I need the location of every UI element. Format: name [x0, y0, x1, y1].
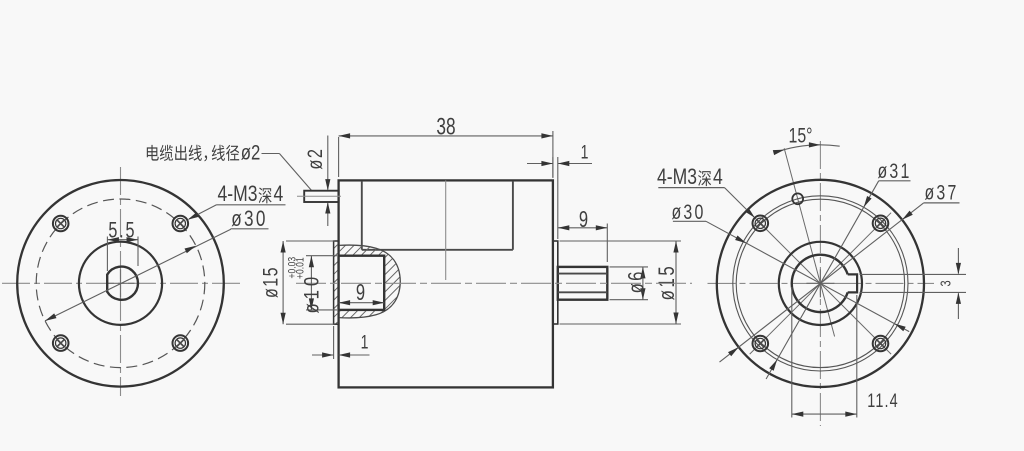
svg-text:15°: 15°: [788, 124, 812, 148]
tapped hole M3 left view #2: [173, 216, 189, 232]
svg-text:5.5: 5.5: [108, 218, 136, 243]
tapped hole M3 left view #4: [173, 335, 189, 351]
svg-text:ø31: ø31: [877, 160, 911, 184]
dimension 9 shaft length: [558, 207, 608, 262]
svg-text:1: 1: [581, 141, 589, 163]
rear bearing boss ø15 x 1: [553, 241, 558, 324]
svg-text:ø2: ø2: [241, 142, 261, 165]
tapped hole M3 right view #4: [873, 336, 889, 352]
dimension 11.4 bore to keyway: [792, 287, 899, 418]
dimension ø6 shaft: [610, 267, 650, 300]
svg-text:9: 9: [579, 207, 588, 232]
hub circle ø15 right view: [779, 242, 862, 325]
dimension ø30 bolt circle left view: [45, 207, 269, 321]
tapped hole M3 right view #2: [873, 216, 889, 232]
15 degree reference line to small hole: [784, 148, 834, 336]
bolt circle ø30 dashed left view: [36, 199, 205, 368]
circle ø31: [733, 196, 908, 371]
front sleeve ø15 x 1: [334, 241, 339, 324]
svg-text:9: 9: [356, 280, 365, 305]
motor body rectangle 38 long: [339, 180, 553, 387]
hub circle ø15 left view: [79, 242, 162, 325]
svg-text:4-M3: 4-M3: [657, 165, 697, 190]
shaft bore ø5.5 with flat, left view: [107, 267, 138, 300]
middle view: side section of motor body: [339, 180, 553, 387]
centerline vertical left view: [120, 167, 122, 396]
circle ø30 bolt circle: [736, 199, 904, 367]
dimension ø31: [766, 181, 879, 379]
svg-text:ø2: ø2: [304, 148, 328, 170]
svg-text:+0.01: +0.01: [295, 257, 307, 279]
output shaft ø6 with flats: [558, 267, 608, 300]
bore ø10 with keyway right view: [792, 255, 857, 312]
dimension 1 rear boss step: [527, 141, 592, 239]
dimension ø30 bolt circle right view: [706, 221, 909, 331]
svg-text:1: 1: [361, 331, 369, 353]
dimension 5.5 across flats of bore: [107, 218, 138, 271]
flange outer circle ø37 left view: [17, 180, 224, 387]
dimension 3 keyway width: [860, 248, 967, 319]
label 4-M3 depth 4 right view: [657, 165, 755, 218]
main axis centerline: [296, 282, 692, 284]
cable stub on top left of body: [297, 191, 341, 202]
center cross left view: [107, 282, 135, 284]
svg-text:38: 38: [436, 114, 455, 140]
small hole on ø31 at 15 degrees: [792, 193, 803, 204]
label cable outlet, wire dia 2: [147, 142, 312, 191]
svg-text:3: 3: [937, 280, 954, 286]
dimension ø2 cable: [304, 136, 330, 227]
dimension 9 bore depth: [339, 280, 385, 305]
svg-text:ø15: ø15: [655, 264, 680, 301]
svg-text:ø37: ø37: [924, 181, 958, 205]
dimension ø10 bore with tolerance: [287, 256, 337, 314]
dimension 38 overall length: [339, 114, 553, 177]
svg-text:ø30: ø30: [671, 201, 705, 225]
svg-text:4: 4: [713, 165, 723, 190]
centerline horizontal right view: [708, 282, 935, 284]
svg-text:11.4: 11.4: [867, 389, 898, 412]
front hub boss section with hatching: [249, 240, 575, 325]
label 4-M3 depth 4, left view: [188, 182, 286, 220]
dimension ø15 rear boss: [560, 241, 682, 324]
body vertical centerline: [445, 180, 447, 280]
svg-text:4: 4: [274, 182, 284, 207]
dimension 15 degrees: [773, 124, 840, 155]
tapped hole M3 right view #3: [753, 336, 769, 352]
svg-text:4-M3: 4-M3: [218, 182, 258, 207]
dimension ø15 front sleeve: [258, 241, 334, 324]
centerline vertical right view: [819, 141, 821, 426]
center cross right view: [806, 282, 834, 284]
stator inner section lines: [361, 181, 363, 250]
svg-text:ø30: ø30: [231, 207, 268, 232]
outer circle ø37 right view: [717, 180, 924, 387]
dimension 1 front sleeve: [312, 326, 370, 359]
svg-text:ø6: ø6: [624, 269, 649, 293]
right view: rear face of motor: [708, 141, 935, 426]
svg-text:ø15: ø15: [258, 266, 282, 298]
tapped hole M3 left view #3: [53, 335, 69, 351]
dimension ø37 outer: [720, 203, 924, 362]
left view: shaft-end face of motor: [2, 167, 241, 396]
bore ø10 x 9 deep: [339, 256, 385, 310]
tapped hole M3 right view #1: [753, 216, 769, 232]
tapped hole M3 left view #1: [53, 216, 69, 232]
diagonal centerlines through screw holes: [750, 213, 891, 354]
centerline horizontal left view: [2, 282, 241, 284]
